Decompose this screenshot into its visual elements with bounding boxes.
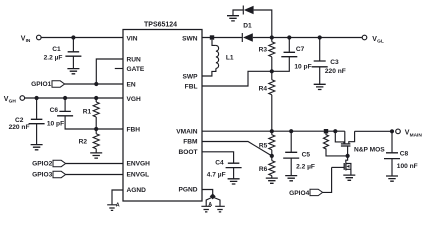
diode D1 upper cathode bar: [242, 6, 244, 15]
wire C6 branch: [64, 98, 66, 111]
wire RUN to EN node: [96, 59, 123, 84]
capacitor C5: [283, 152, 299, 158]
wire FBM diagonal to divider: [202, 142, 272, 156]
resistor R2: [93, 134, 99, 149]
wire C3 to ground: [319, 67, 321, 84]
ground AGND analog: [107, 205, 117, 211]
svg-text:VIN: VIN: [127, 35, 138, 42]
capacitor C8: [384, 153, 400, 159]
junction L1 tap (square): [210, 35, 214, 39]
junction PGND star (diamond): [210, 193, 216, 199]
transistor Q2 N-MOS channel: [345, 162, 347, 170]
svg-text:EN: EN: [127, 81, 136, 88]
junction gate resistor tap (square): [324, 129, 328, 133]
capacitor C2: [29, 119, 45, 123]
capacitor C4: [226, 163, 242, 167]
svg-text:D1: D1: [243, 23, 252, 30]
junction FBH node: [94, 127, 98, 131]
junction R1 tap: [94, 96, 98, 100]
svg-text:R6: R6: [259, 166, 268, 173]
wire R5 bottom: [271, 150, 273, 156]
svg-text:2.2 µF: 2.2 µF: [296, 163, 315, 170]
svg-text:GPIO3: GPIO3: [32, 171, 52, 178]
diode D1 lower cathode bar: [241, 33, 243, 42]
wire D1 upper to ground: [233, 10, 243, 16]
junction R4/R5 tap: [270, 129, 274, 133]
junction C2 tap: [35, 96, 39, 100]
junction C5 tap: [289, 129, 293, 133]
diode D1 upper body: [244, 6, 254, 15]
wire GPIO2 to ENVGH: [66, 163, 123, 165]
transistor Q1 P-MOS source wire: [344, 131, 346, 143]
transistor Q1 P-MOS body bracket: [335, 131, 344, 143]
junction C6 tap: [63, 96, 67, 100]
junction C3 tap: [318, 35, 322, 39]
transistor Q1 P-MOS drain wire: [349, 131, 355, 143]
GPIO2 tag: [53, 160, 66, 166]
svg-text:FBL: FBL: [185, 83, 198, 90]
wire C1 branch: [72, 38, 74, 52]
wire L1 top: [212, 40, 216, 46]
wire R6 bottom: [271, 176, 273, 178]
wire R5 top: [271, 131, 273, 135]
node label V_GL: [372, 36, 384, 45]
junction C1 tap: [71, 35, 75, 39]
wire D1 upper branch: [254, 10, 272, 38]
svg-text:SWP: SWP: [182, 73, 198, 80]
svg-text:SWN: SWN: [182, 35, 198, 42]
junction P-MOS source tap: [333, 129, 337, 133]
junction gate node: [346, 154, 350, 158]
resistor R5: [269, 135, 275, 150]
svg-text:ENVGH: ENVGH: [127, 161, 151, 168]
wire SWN to D1: [202, 37, 242, 39]
capacitor C1: [65, 52, 81, 56]
wire VIN input to pin VIN: [41, 37, 123, 39]
wire C7 bottom to FBL node: [272, 57, 290, 72]
resistor R3: [269, 42, 275, 57]
svg-text:GPIO2: GPIO2: [32, 160, 52, 167]
capacitor C6: [57, 111, 73, 115]
svg-text:2.2 µF: 2.2 µF: [44, 55, 63, 62]
wire GPIO1 to EN: [65, 83, 123, 85]
ground C5: [285, 176, 297, 181]
svg-text:4.7 µF: 4.7 µF: [207, 171, 226, 178]
ground R2: [90, 153, 102, 158]
wire R6 top: [271, 156, 273, 161]
svg-text:GPIO4: GPIO4: [289, 190, 309, 197]
svg-text:N&P MOS: N&P MOS: [354, 147, 385, 154]
svg-text:R1: R1: [83, 109, 92, 116]
wire N-MOS gate from GPIO4: [332, 166, 345, 168]
svg-text:MAIN: MAIN: [410, 132, 423, 138]
ground C8: [386, 176, 398, 181]
svg-text:GH: GH: [9, 99, 17, 105]
transistor Q1 P-MOS gate bar: [341, 145, 351, 147]
wire GPIO3 to ENVGL: [66, 174, 123, 176]
wire R4 top: [271, 71, 273, 80]
wire C5 to ground: [290, 158, 292, 175]
terminal VGL: [362, 35, 367, 40]
wire C4 to ground: [233, 168, 235, 179]
transistor Q1 P-MOS channel: [341, 143, 351, 145]
wire AGND to ground: [112, 190, 123, 204]
wire P-MOS gate to node: [347, 146, 349, 156]
svg-text:C7: C7: [296, 46, 305, 53]
wire C5 branch: [290, 131, 292, 152]
wire P-MOS drain to VMAIN out: [355, 130, 392, 132]
svg-text:10 pF: 10 pF: [47, 121, 64, 128]
terminal VIN: [37, 35, 42, 40]
GPIO4 tag: [310, 189, 323, 195]
wire VGH rail: [25, 97, 123, 99]
node label V_MAIN: [405, 130, 423, 139]
svg-text:IN: IN: [26, 38, 31, 44]
wire VMAIN rail: [202, 130, 345, 132]
wire FBL to divider: [202, 71, 272, 86]
svg-text:RUN: RUN: [127, 56, 142, 63]
wire PGND: [202, 190, 213, 195]
terminal VGH: [20, 96, 25, 101]
transistor Q2 N-MOS stubs: [346, 164, 351, 176]
svg-text:AGND: AGND: [127, 187, 147, 194]
ground R6: [266, 178, 278, 183]
wire R2 top: [95, 129, 97, 134]
junction R5/R6 node: [270, 154, 274, 158]
ground D1: [227, 16, 239, 21]
wire R1 bottom: [95, 117, 97, 129]
diode D1 lower body: [243, 33, 253, 42]
svg-text:PGND: PGND: [178, 187, 197, 194]
GPIO3 tag: [53, 171, 66, 177]
capacitor C7: [281, 52, 297, 56]
GPIO1 tag: [52, 81, 65, 87]
svg-text:FBM: FBM: [183, 139, 198, 146]
ground C1: [67, 69, 79, 74]
resistor R1: [93, 102, 99, 117]
capacitor C3: [312, 61, 328, 67]
wire PGND to analog ground: [206, 197, 212, 206]
svg-text:A: A: [116, 203, 120, 209]
transistor Q2 N-MOS gate bar: [343, 163, 345, 170]
wire C8 to ground: [391, 159, 393, 176]
junction FBL node: [270, 69, 274, 73]
wire FBH to pin: [96, 128, 123, 130]
wire VGL rail: [253, 37, 362, 39]
svg-text:C6: C6: [50, 107, 59, 114]
svg-text:100 nF: 100 nF: [397, 163, 418, 170]
svg-text:GPIO1: GPIO1: [31, 81, 51, 88]
ground PGND analog A: [201, 206, 211, 212]
svg-text:C1: C1: [52, 46, 61, 53]
svg-text:VMAIN: VMAIN: [176, 128, 197, 135]
svg-text:R4: R4: [259, 86, 268, 93]
svg-text:ENVGL: ENVGL: [127, 172, 150, 179]
junction C8 tap: [390, 129, 394, 133]
junction C7 tap: [287, 35, 291, 39]
wire C7 branch: [288, 38, 290, 52]
svg-text:GL: GL: [377, 39, 384, 45]
svg-text:C8: C8: [400, 150, 409, 157]
resistor R4: [269, 80, 275, 95]
inductor L1: [216, 45, 219, 68]
resistor P-MOS gate pull-up: [324, 131, 348, 156]
node label V_IN: [21, 35, 31, 44]
svg-text:220 nF: 220 nF: [9, 124, 30, 131]
wire GPIO4 to N-MOS gate: [323, 167, 332, 192]
svg-text:FBH: FBH: [127, 126, 141, 133]
wire C2 to ground: [36, 124, 38, 145]
wire N-MOS drain: [346, 156, 348, 163]
wire R4 bottom to VMAIN rail: [271, 95, 273, 131]
wire R3 top: [271, 38, 273, 42]
ground C2: [31, 145, 43, 150]
terminal VMAIN: [396, 129, 401, 134]
svg-text:C3: C3: [330, 59, 339, 66]
wire C6 to FBH: [65, 116, 96, 129]
ground PGND power: [215, 206, 225, 212]
svg-text:C2: C2: [15, 117, 24, 124]
wire PGND to power ground: [214, 197, 221, 206]
svg-text:R2: R2: [79, 138, 88, 145]
resistor R6: [269, 161, 275, 176]
wire GATE stub: [115, 68, 123, 70]
transistor Q2 N-MOS body arrow: [346, 165, 349, 168]
svg-text:VGH: VGH: [127, 96, 142, 103]
ground C4: [228, 179, 240, 184]
svg-text:A: A: [208, 202, 212, 208]
svg-text:BOOT: BOOT: [178, 149, 197, 156]
svg-text:C5: C5: [302, 151, 311, 158]
svg-text:220 nF: 220 nF: [325, 68, 346, 75]
svg-text:R3: R3: [259, 47, 268, 54]
wire R1 top: [95, 98, 97, 102]
wire R3 bottom: [271, 57, 273, 72]
wire BOOT to C4: [202, 152, 234, 163]
wire C8 branch: [391, 131, 393, 152]
wire C1 to ground: [72, 56, 74, 68]
wire C3 branch: [319, 38, 321, 61]
svg-text:10 pF: 10 pF: [294, 63, 311, 70]
svg-text:TPS65124: TPS65124: [144, 22, 177, 29]
svg-text:GATE: GATE: [127, 66, 145, 73]
junction R3 tap: [270, 35, 274, 39]
junction EN/RUN: [94, 82, 98, 86]
ground N-MOS source: [343, 175, 355, 180]
svg-text:C4: C4: [215, 160, 224, 167]
wire C2 branch: [36, 98, 38, 119]
IC U1 TPS65124 box: [123, 30, 202, 202]
node label V_GH: [4, 96, 17, 105]
ground C3: [314, 84, 326, 89]
wire R2 bottom: [95, 149, 97, 153]
wire L1 bottom to SWP: [202, 68, 216, 76]
svg-text:L1: L1: [226, 54, 234, 61]
